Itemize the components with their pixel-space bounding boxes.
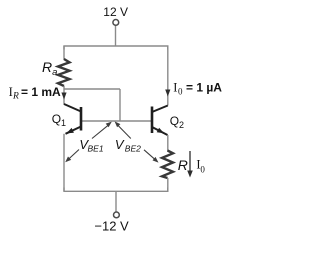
annotation arrow VBE1 to emitter wire [68,150,79,160]
svg-text:BE2: BE2 [125,143,141,153]
transistor Q1 base bar [80,107,83,131]
power terminal: -12V [114,212,120,218]
transistor Q1 emitter arrowhead [66,128,74,133]
wire: Q2 emitter down to R [167,135,169,151]
wire: collector-base tie vertical drop to base rail [119,89,121,121]
wire: Ra to Q1 collector (node with base tie) [63,86,65,105]
resistor Ra [58,59,70,86]
transistor Q1 emitter lead [66,127,82,134]
resistor R [162,151,173,179]
svg-text:−12 V: −12 V [94,218,129,233]
wire: collector-base tie horizontal [64,88,120,90]
svg-text:Q: Q [170,114,179,128]
svg-text:= 1 µA: = 1 µA [186,81,222,95]
wire: bottom rail [64,188,168,192]
svg-text:V: V [115,137,125,152]
current arrow I0 (through R) head [187,171,193,178]
svg-text:Ra: Ra [42,59,57,78]
svg-text:0: 0 [200,165,205,175]
svg-text:Q: Q [52,112,61,126]
svg-text:R: R [178,157,188,173]
annotation arrow VBE2 to base node [118,125,131,139]
svg-text:1: 1 [61,118,66,128]
wire: top rail [64,46,168,50]
svg-text:BE1: BE1 [88,143,104,153]
transistor Q2 emitter lead [152,127,168,135]
svg-text:0: 0 [178,87,183,97]
svg-text:2: 2 [179,120,184,130]
svg-text:12 V: 12 V [103,5,128,19]
annotation arrow VBE2 to R top [144,150,155,160]
transistor Q2 emitter arrowhead [157,128,164,134]
power terminal: +12V [113,20,119,26]
transistor Q2 base bar [151,107,154,134]
transistor Q2 collector lead [152,106,168,113]
wire: base rail Q1 to Q2 [81,120,152,122]
current arrow IR [61,93,66,100]
svg-text:= 1 mA: = 1 mA [21,85,61,99]
svg-text:I: I [173,81,177,95]
current arrow I0 (through R) shaft [189,151,191,172]
wire: bottom rail to -12V terminal [115,191,117,212]
wire: Q1 emitter down to bottom rail [63,134,65,191]
svg-text:R: R [12,92,19,102]
wire: top rail to Ra [63,46,65,60]
current arrow I0 (top) [165,90,170,97]
transistor Q1 collector lead [64,104,81,112]
wire: R to bottom rail [167,178,169,191]
annotation arrow VBE1 to base node [92,125,109,139]
wire: right rail drop to Q2 collector [167,46,169,106]
wire: +12V tap to top rail [115,25,117,45]
